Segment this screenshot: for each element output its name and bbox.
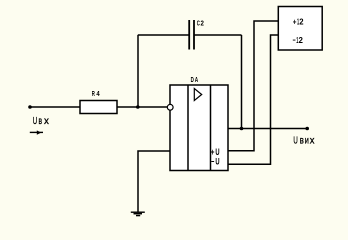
wire output	[228, 128, 307, 130]
wire non-inverting input	[138, 151, 170, 212]
svg-text:DA: DA	[191, 75, 198, 84]
wire feedback left vertical	[137, 35, 139, 107]
svg-text:C2: C2	[197, 21, 204, 28]
op-amp triangle	[194, 89, 201, 101]
wire -U supply	[228, 35, 278, 164]
svg-text:Uвих: Uвих	[293, 135, 315, 147]
resistor R4	[80, 101, 117, 114]
wire +U supply	[228, 21, 278, 151]
node feedback junction	[136, 105, 140, 109]
wire feedback right vertical	[241, 35, 243, 129]
ground	[131, 212, 145, 215]
capacitor C2	[189, 20, 194, 50]
op-amp divider right	[210, 85, 212, 171]
svg-text:−U: −U	[211, 157, 220, 167]
node output terminal	[305, 127, 309, 131]
wire to capacitor left	[138, 34, 189, 36]
svg-text:−12: −12	[293, 35, 304, 45]
node output junction	[240, 127, 244, 131]
wire input to R4	[30, 106, 80, 108]
input arrow	[30, 130, 43, 134]
op-amp divider left	[187, 85, 189, 171]
wire capacitor right	[194, 34, 242, 36]
svg-text:+U: +U	[211, 147, 220, 157]
svg-text:R4: R4	[92, 89, 101, 98]
svg-text:+12: +12	[293, 17, 304, 27]
svg-text:Uвх: Uвх	[33, 116, 49, 127]
power supply box	[278, 7, 322, 51]
op-amp inversion circle	[167, 104, 173, 110]
op-amp U1 body	[170, 85, 228, 171]
wire R4 to op-amp inverting input	[117, 106, 167, 108]
node input terminal	[28, 105, 32, 109]
